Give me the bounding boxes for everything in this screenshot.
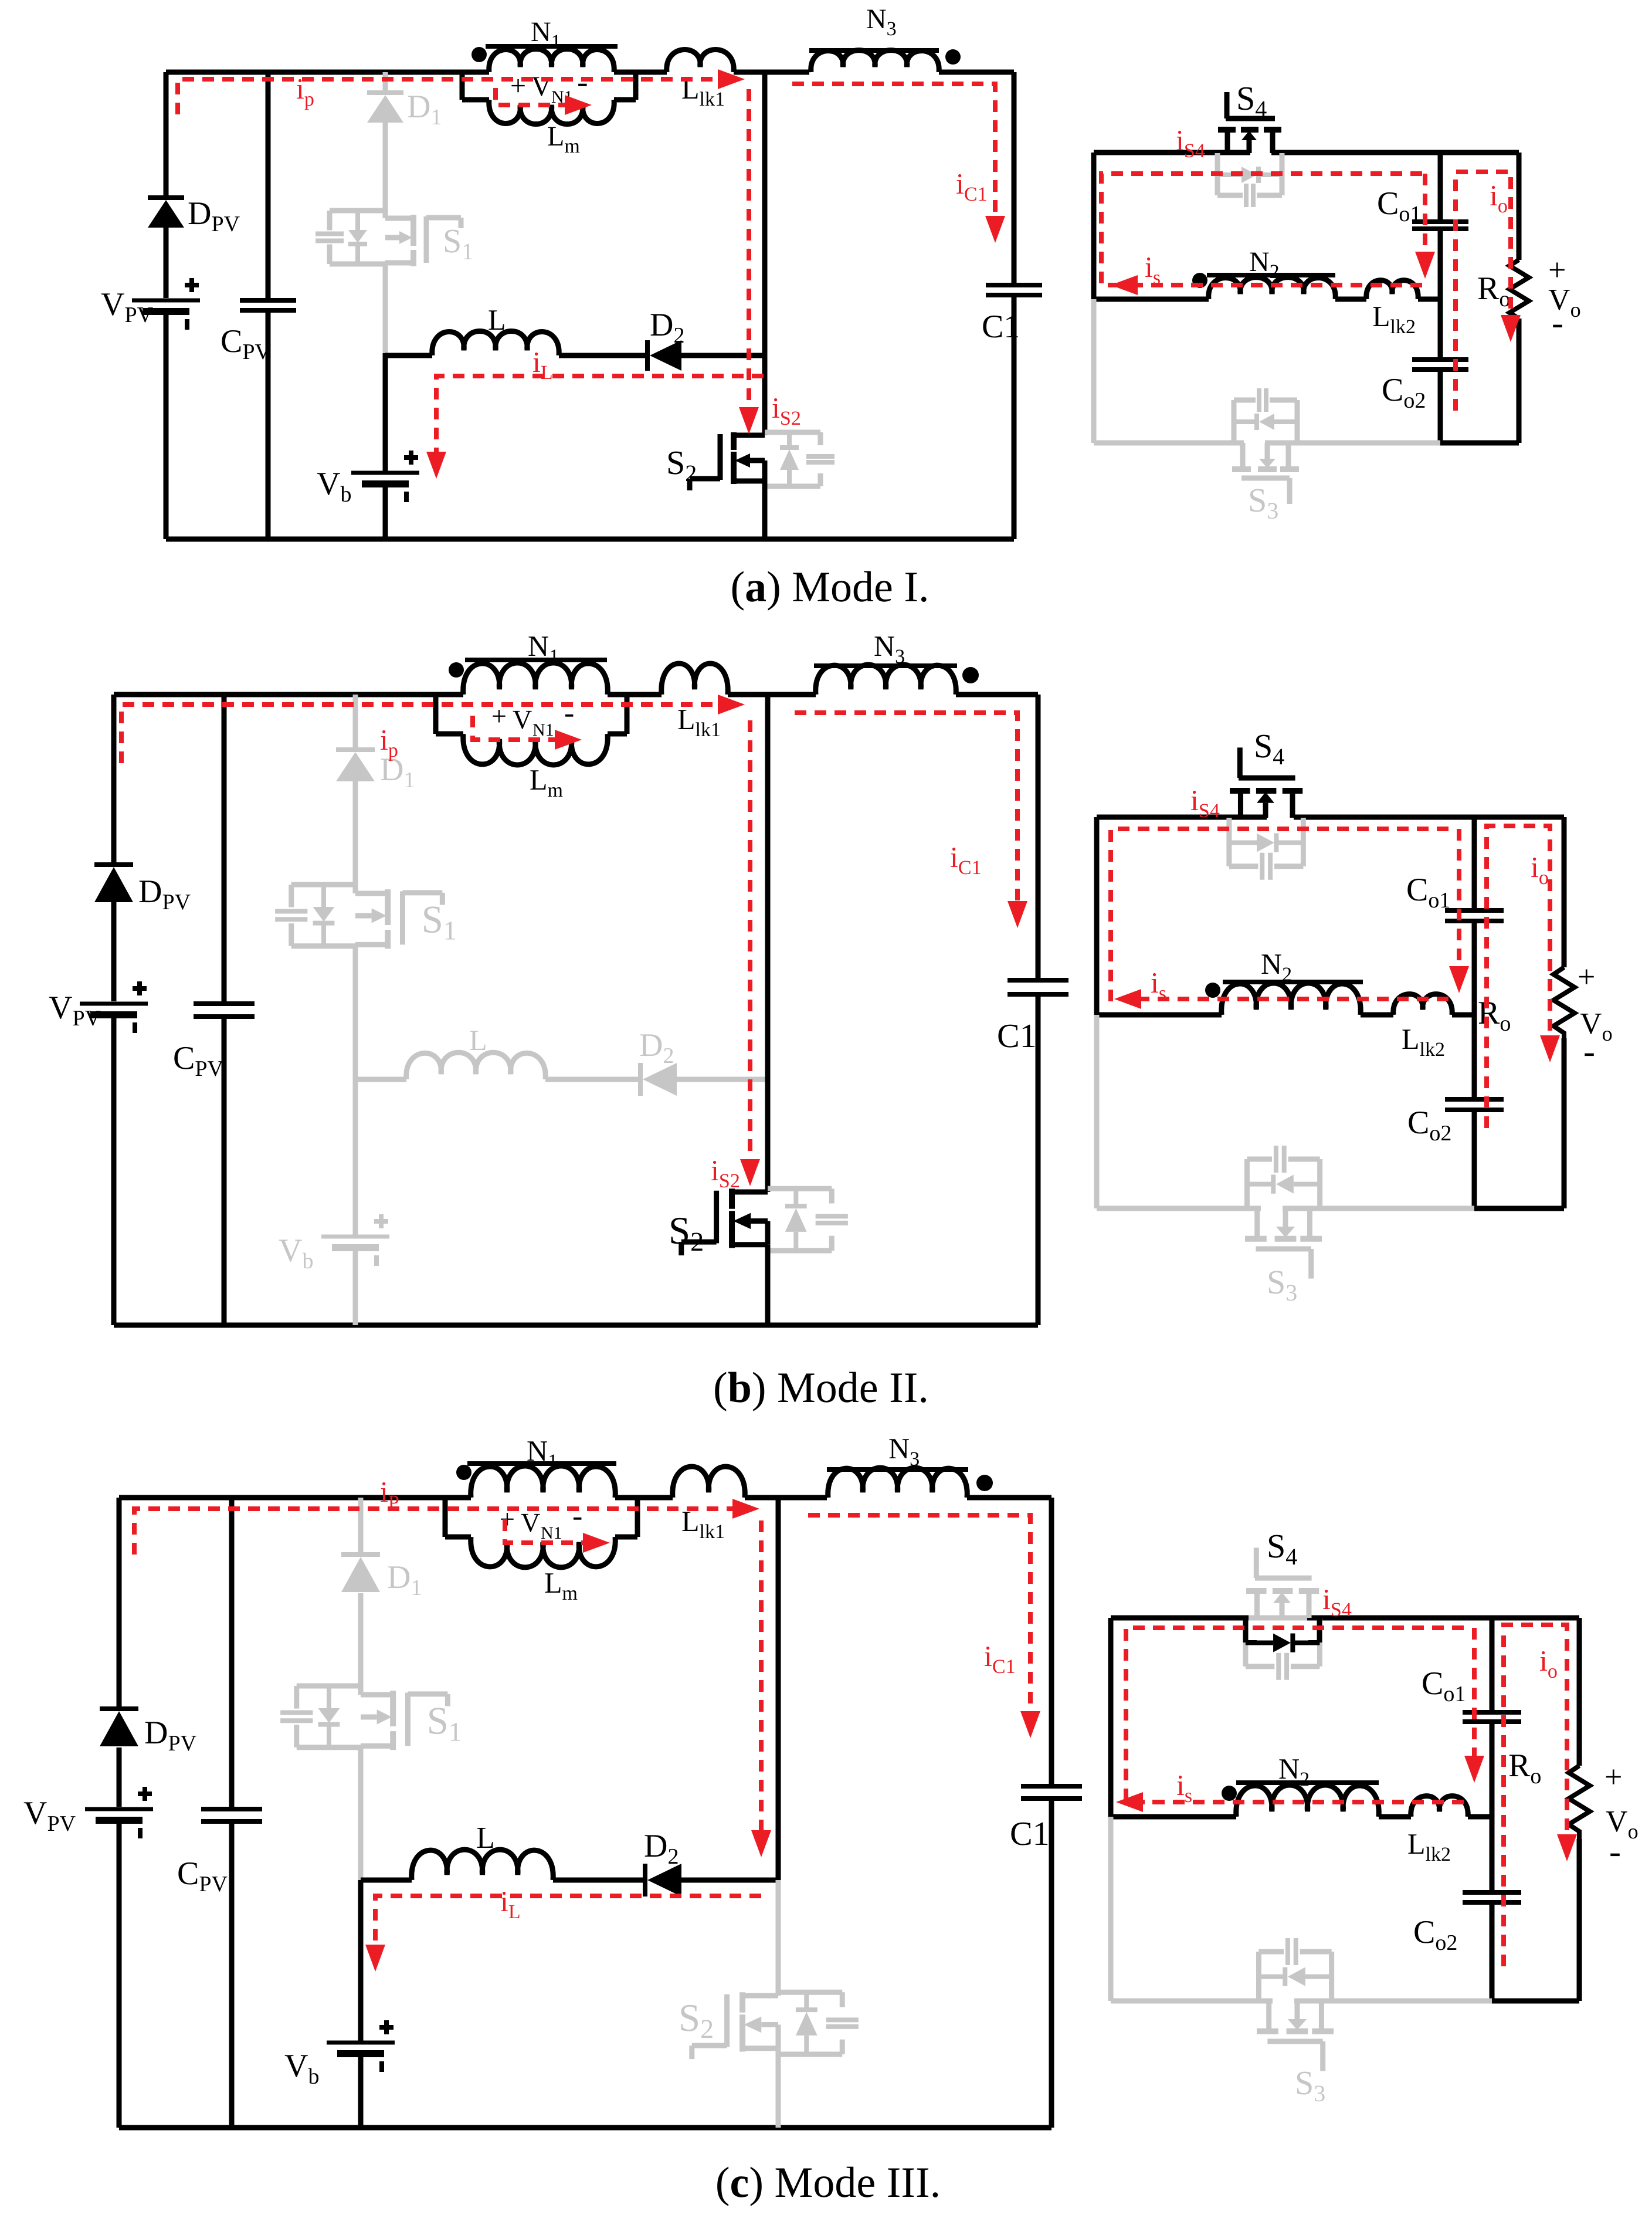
caption (a) Mode I.	[730, 563, 929, 611]
label S3 c	[1295, 2064, 1325, 2107]
current path is c	[1116, 1792, 1464, 1812]
inductor Llk2	[1366, 280, 1418, 299]
wire S4 gray link c	[1249, 1616, 1307, 1621]
mosfet S3 b (inactive)	[1245, 1146, 1322, 1279]
label N3	[866, 4, 897, 40]
label VPV	[101, 286, 154, 327]
svg-text:+: +	[510, 70, 526, 101]
label iL c	[500, 1885, 521, 1923]
wire Vb to bottom	[383, 484, 388, 539]
transformer core bar N2	[1207, 273, 1335, 277]
current path iS4 loop b	[1111, 829, 1449, 999]
label D2 b	[639, 1027, 674, 1068]
label iS4 c	[1322, 1583, 1352, 1621]
diode D1 b (inactive)	[336, 750, 375, 781]
label N1 b	[528, 629, 559, 668]
wire secondary left vertical c	[1108, 1618, 1114, 1817]
label N3 b	[874, 629, 905, 668]
label is	[1145, 250, 1161, 289]
capacitor CPV	[240, 300, 296, 310]
wire Llk1 to N3 c	[745, 1495, 827, 1501]
wire Co1 vertical b	[1472, 817, 1477, 1208]
wire D1-S1 branch (inactive)	[383, 72, 388, 353]
label S4 b	[1254, 727, 1284, 770]
svg-text:L: L	[469, 1024, 487, 1056]
wire Llk2 to Co node	[1418, 297, 1440, 302]
wire secondary bottom gray b	[1097, 1206, 1474, 1211]
label D1	[407, 89, 442, 130]
label Vo minus c	[1609, 1832, 1621, 1871]
current path iS4 right leg	[1415, 174, 1435, 279]
label Ro b	[1478, 995, 1511, 1036]
label Ro	[1477, 270, 1510, 311]
current path iS2 b	[740, 720, 760, 1186]
svg-text:-: -	[1583, 1032, 1595, 1071]
label iS4 b	[1190, 784, 1220, 822]
current path ip	[178, 69, 745, 114]
label Llk1 c	[681, 1505, 725, 1543]
wire secondary left vertical	[1091, 153, 1097, 299]
current path iS4 loop c	[1126, 1628, 1464, 1802]
wire secondary bottom black	[1440, 441, 1519, 446]
wire Vb branch c	[358, 1880, 364, 2043]
mosfet S1 b (inactive)	[275, 885, 457, 949]
wire S2 source to bottom	[762, 481, 768, 539]
diode D2 b (inactive)	[640, 1063, 677, 1096]
wire L to D2	[559, 353, 648, 358]
diode D1 c (inactive)	[341, 1555, 380, 1592]
label N2	[1249, 246, 1280, 283]
transformer core bar N2 c	[1236, 1780, 1379, 1785]
transformer core bar N1	[486, 44, 618, 49]
svg-text:L: L	[488, 303, 506, 336]
winding N2 c	[1236, 1785, 1379, 1817]
svg-text:C1: C1	[997, 1017, 1037, 1055]
label Llk2	[1372, 300, 1416, 338]
label DPV c	[144, 1715, 197, 1756]
winding N3	[811, 50, 939, 72]
capacitor Co1	[1412, 222, 1468, 229]
capacitor Co2 c	[1463, 1892, 1521, 1902]
inductor Llk1 c	[673, 1467, 745, 1498]
label CPV c	[177, 1855, 228, 1897]
wire C1 vertical c	[1049, 1498, 1054, 2128]
label S3 b	[1267, 1263, 1297, 1306]
label Vo b	[1580, 1007, 1613, 1045]
label Vo c	[1606, 1805, 1639, 1843]
label Vo minus b	[1583, 1032, 1595, 1071]
current path iS4 right leg c	[1464, 1628, 1484, 1783]
label Llk2 c	[1407, 1827, 1451, 1865]
caption (c) Mode III.	[715, 2159, 941, 2207]
wire secondary right vertical b	[1562, 817, 1567, 1208]
label Lm	[547, 121, 580, 157]
diode D1 (inactive)	[367, 93, 403, 123]
diode D2 c	[645, 1864, 681, 1897]
wire secondary right vertical c	[1577, 1618, 1582, 2001]
mosfet S3 (inactive)	[1232, 388, 1299, 504]
label DPV	[188, 195, 240, 236]
transformer N3 dot b	[962, 667, 979, 683]
label io c	[1539, 1644, 1558, 1682]
svg-text:V: V	[531, 71, 552, 102]
capacitor Co1 b	[1445, 910, 1504, 921]
label is b	[1151, 966, 1166, 1004]
current path iC1 c	[808, 1515, 1040, 1738]
label Vo plus	[1548, 252, 1566, 287]
wire CPV branch	[266, 72, 271, 539]
label ip c	[380, 1475, 399, 1513]
current path iC1 b	[795, 713, 1027, 928]
diode D2	[647, 340, 681, 371]
winding N2 b	[1222, 983, 1361, 1015]
svg-text:-: -	[564, 696, 574, 730]
label D1 b	[380, 751, 415, 793]
battery Vb	[351, 451, 419, 502]
wire junction vertical c	[776, 1498, 781, 1880]
wire Llk1 to N3 b	[728, 692, 816, 697]
label Vb	[317, 466, 351, 507]
wire secondary left vertical b	[1094, 817, 1100, 1015]
wire Llk2 to Co node b	[1452, 1012, 1474, 1018]
winding N1 b	[436, 663, 662, 695]
wire top-left c	[119, 1495, 445, 1501]
transformer core bar N3 b	[814, 663, 957, 668]
resistor Ro	[1509, 260, 1529, 319]
wire secondary left lower (inactive)	[1091, 299, 1097, 443]
wire CPV branch c	[229, 1498, 235, 2128]
current path iL	[426, 376, 764, 479]
label DPV b	[138, 873, 191, 915]
battery VPV c	[85, 1787, 153, 1838]
svg-text:L: L	[476, 1821, 495, 1855]
wire D1-S1 branch b (inactive)	[353, 695, 358, 1235]
transformer core bar N2 b	[1223, 980, 1363, 984]
wire bottom	[166, 537, 1014, 542]
current path iC1	[792, 84, 1005, 243]
svg-text:N1: N1	[532, 720, 554, 740]
winding Lm b	[436, 695, 627, 765]
current path Lm loop	[496, 88, 592, 115]
wire N3 to C1 corner	[939, 70, 1014, 75]
diode DPV c	[100, 1709, 138, 1746]
capacitor C1	[986, 285, 1042, 295]
wire Vb branch	[383, 353, 388, 473]
wire L left b (inactive)	[355, 1077, 406, 1082]
wire S2 source to bottom b	[765, 1245, 771, 1325]
transformer N1 dot c	[456, 1465, 471, 1480]
capacitor C1 c	[1021, 1786, 1082, 1799]
capacitor CPV c	[201, 1809, 262, 1821]
wire N2 to Llk2 b	[1361, 1012, 1393, 1018]
label S3	[1248, 481, 1278, 524]
wire C1 vertical	[1012, 72, 1017, 539]
svg-text:+: +	[1578, 959, 1595, 994]
wire C1 vertical b	[1036, 695, 1041, 1325]
svg-text:C1: C1	[1010, 1814, 1050, 1853]
winding N1	[462, 49, 667, 72]
label iC1 c	[984, 1640, 1016, 1678]
label Co2 c	[1413, 1914, 1457, 1955]
label D2 c	[644, 1828, 679, 1869]
inductor L c	[412, 1850, 553, 1880]
label Co2 b	[1407, 1105, 1451, 1146]
wire S2 drain vertical	[762, 72, 768, 435]
inductor Llk1	[667, 50, 734, 72]
wire left vertical (VPV branch)	[164, 72, 169, 539]
current path iS2 c	[751, 1520, 771, 1857]
mosfet S2 b	[669, 1188, 848, 1257]
wire D2 to node	[679, 353, 765, 358]
transformer N2 polarity dot	[1192, 273, 1207, 288]
label S4	[1236, 79, 1267, 122]
current path io loop c	[1504, 1625, 1577, 1966]
winding N3 b	[816, 665, 956, 695]
label N2 b	[1261, 947, 1292, 985]
winding N3 c	[828, 1468, 967, 1498]
wire secondary bottom gray	[1094, 441, 1440, 446]
transformer N3 dot c	[976, 1475, 993, 1491]
label Vo minus	[1552, 303, 1563, 342]
winding Lm c	[445, 1498, 637, 1567]
wire Vb to bottom c	[358, 2054, 364, 2128]
wire CPV branch b	[222, 695, 227, 1325]
label Lm b	[530, 763, 563, 801]
current path io loop	[1456, 172, 1521, 411]
mosfet S1 c (inactive)	[280, 1686, 462, 1750]
svg-text:V: V	[521, 1508, 540, 1537]
wire N2 left b	[1097, 1012, 1222, 1018]
label D2	[650, 307, 684, 348]
label C1 c	[1010, 1814, 1050, 1853]
transformer core bar N3	[809, 48, 939, 53]
current path iS2	[739, 89, 759, 434]
capacitor C1 b	[1008, 980, 1068, 994]
label Llk1 b	[677, 703, 721, 741]
label Lm c	[544, 1566, 578, 1604]
mosfet S4 c (body diode conducting)	[1246, 1547, 1320, 1679]
label io	[1490, 179, 1508, 217]
wire N2 to Llk2 c	[1379, 1814, 1411, 1820]
wire secondary left lower c (inactive)	[1108, 1817, 1114, 2001]
label D1 c	[387, 1559, 422, 1600]
wire Co1 vertical c	[1490, 1618, 1495, 2001]
wire L left	[385, 353, 432, 358]
wire L left c	[361, 1878, 412, 1883]
wire L to D2 c	[553, 1878, 645, 1883]
wire Vb to bottom b	[353, 1248, 358, 1325]
wire secondary top b	[1097, 815, 1564, 820]
label Ro c	[1508, 1748, 1541, 1789]
wire N2 to Llk2	[1335, 297, 1366, 302]
current path io loop b	[1487, 826, 1560, 1128]
inductor Llk2 b	[1393, 994, 1452, 1015]
transformer N2 dot c	[1222, 1786, 1237, 1801]
label VN1 polarity b	[491, 696, 574, 740]
wire S4 diode path black c	[1246, 1618, 1319, 1642]
svg-text:-: -	[577, 64, 588, 100]
current path iS4 loop	[1101, 174, 1422, 285]
wire N3 to C1 b	[956, 692, 1038, 697]
svg-text:N1: N1	[541, 1523, 562, 1543]
label L	[488, 303, 506, 336]
label C1 b	[997, 1017, 1037, 1055]
label VPV b	[49, 990, 101, 1031]
wire D1-S1 branch c (inactive)	[358, 1498, 364, 1880]
label Vb b	[279, 1232, 313, 1274]
label S4 c	[1267, 1527, 1297, 1570]
label N3 c	[888, 1432, 920, 1470]
mosfet S2 with body diode	[666, 432, 835, 490]
battery VPV b	[80, 981, 148, 1033]
mosfet S3 c (inactive)	[1257, 1938, 1334, 2071]
diode DPV b	[94, 865, 133, 902]
capacitor Co2 b	[1445, 1099, 1504, 1110]
wire left vertical b	[111, 695, 117, 1325]
label iC1 b	[950, 841, 982, 879]
current path ip b	[121, 695, 745, 763]
inductor Llk2 c	[1411, 1796, 1468, 1817]
svg-text:-: -	[1552, 303, 1563, 342]
current path Lm loop c	[505, 1519, 610, 1553]
transformer N2 dot b	[1205, 983, 1220, 998]
label N2 c	[1278, 1752, 1310, 1790]
wire secondary left lower b (inactive)	[1094, 1015, 1100, 1208]
wire Co1 vertical	[1438, 153, 1443, 443]
wire S2 drain vertical c (inactive)	[776, 1880, 781, 1996]
label Co1 b	[1406, 872, 1450, 913]
mosfet S1 (inactive)	[316, 211, 473, 266]
capacitor Co2	[1412, 360, 1468, 370]
diode DPV	[148, 198, 184, 228]
label Llk2 b	[1402, 1022, 1445, 1061]
battery VPV	[132, 278, 200, 330]
wire L to D2 b	[545, 1077, 640, 1082]
label io b	[1531, 851, 1549, 889]
transformer core bar N3 c	[827, 1467, 968, 1472]
label Co1 c	[1422, 1665, 1466, 1706]
mosfet S4 b	[1229, 747, 1304, 879]
svg-text:C1: C1	[982, 309, 1020, 345]
capacitor CPV b	[194, 1004, 255, 1017]
label iS2	[772, 391, 801, 429]
wire Llk2 to Co node c	[1468, 1814, 1492, 1820]
wire secondary top c	[1111, 1616, 1579, 1621]
label C1	[982, 309, 1020, 345]
label Vo	[1548, 283, 1581, 321]
label Vo plus c	[1604, 1759, 1622, 1794]
label ip b	[380, 723, 398, 761]
resistor Ro c	[1569, 1766, 1590, 1839]
winding N1 c	[445, 1466, 673, 1498]
svg-text:+: +	[1548, 252, 1566, 287]
svg-text:-: -	[572, 1499, 582, 1533]
inductor Llk1 b	[662, 663, 728, 695]
wire secondary top	[1094, 150, 1519, 155]
label Vb c	[284, 2048, 319, 2089]
label VN1 polarity c	[500, 1499, 582, 1543]
winding N2	[1209, 277, 1335, 299]
wire bottom c	[119, 2125, 1051, 2131]
battery Vb c	[327, 2020, 395, 2072]
current path is b	[1114, 989, 1449, 1009]
transformer N1 polarity dot	[471, 47, 487, 62]
wire secondary right vertical	[1517, 153, 1522, 443]
svg-text:(a) Mode I.: (a) Mode I.	[730, 563, 929, 611]
current path ip c	[134, 1499, 759, 1555]
winding Lm (magnetizing)	[462, 72, 636, 124]
current path is	[1111, 275, 1422, 295]
wire Llk1 to N3	[734, 70, 809, 75]
wire S2 source to bottom c	[776, 2048, 781, 2128]
label CPV b	[173, 1040, 223, 1081]
label Llk1	[681, 72, 725, 110]
wire top-left (VPV to transformer)	[166, 70, 462, 75]
wire left vertical c	[117, 1498, 122, 2128]
label Co1	[1377, 185, 1421, 226]
battery Vb b (inactive)	[321, 1214, 389, 1266]
label iL	[532, 346, 553, 384]
wire bottom b	[114, 1323, 1038, 1328]
wire D2 to node c	[679, 1878, 778, 1883]
current path Lm loop b	[473, 716, 582, 750]
label Vo plus b	[1578, 959, 1595, 994]
svg-text:-: -	[1609, 1832, 1621, 1871]
resistor Ro b	[1553, 967, 1575, 1038]
current path iL c	[365, 1896, 761, 1972]
label is c	[1176, 1769, 1192, 1807]
svg-text:V: V	[513, 705, 532, 734]
label VN1 polarity	[510, 64, 588, 107]
capacitor Co1 c	[1463, 1712, 1521, 1722]
svg-text:+: +	[1604, 1759, 1622, 1794]
transformer N1 dot b	[449, 662, 464, 678]
mosfet S4 with body diode	[1217, 92, 1282, 207]
label CPV	[221, 323, 271, 364]
wire N2 left	[1094, 297, 1209, 302]
label VPV c	[23, 1795, 76, 1836]
label L c	[476, 1821, 495, 1855]
label ip	[296, 72, 314, 110]
inductor L b (inactive)	[406, 1052, 545, 1079]
label iS2 b	[711, 1154, 740, 1192]
label iC1	[956, 167, 988, 205]
wire top-left b	[114, 692, 436, 697]
current path iS4 right leg b	[1449, 829, 1469, 993]
wire secondary bottom black b	[1474, 1206, 1564, 1211]
label N1	[531, 16, 561, 53]
wire D2 to node b	[674, 1077, 768, 1082]
wire N2 left c	[1111, 1814, 1236, 1820]
svg-text:(b) Mode II.: (b) Mode II.	[713, 1364, 929, 1412]
mosfet S2 c (inactive)	[679, 1992, 859, 2059]
label N1 c	[527, 1434, 558, 1472]
transformer N3 polarity dot	[945, 49, 961, 65]
wire secondary bottom black c	[1492, 1999, 1579, 2004]
wire secondary bottom gray c	[1111, 1999, 1492, 2004]
svg-text:(c) Mode III.: (c) Mode III.	[715, 2159, 941, 2207]
label L b	[469, 1024, 487, 1056]
label iS4	[1176, 124, 1205, 162]
transformer core bar N1 c	[467, 1461, 616, 1466]
caption (b) Mode II.	[713, 1364, 929, 1412]
wire S2 drain vertical b	[765, 695, 771, 1192]
wire N3 to C1 c	[967, 1495, 1051, 1501]
label Co2	[1382, 372, 1426, 413]
transformer core bar N1 b	[465, 658, 607, 662]
inductor L	[432, 331, 559, 355]
